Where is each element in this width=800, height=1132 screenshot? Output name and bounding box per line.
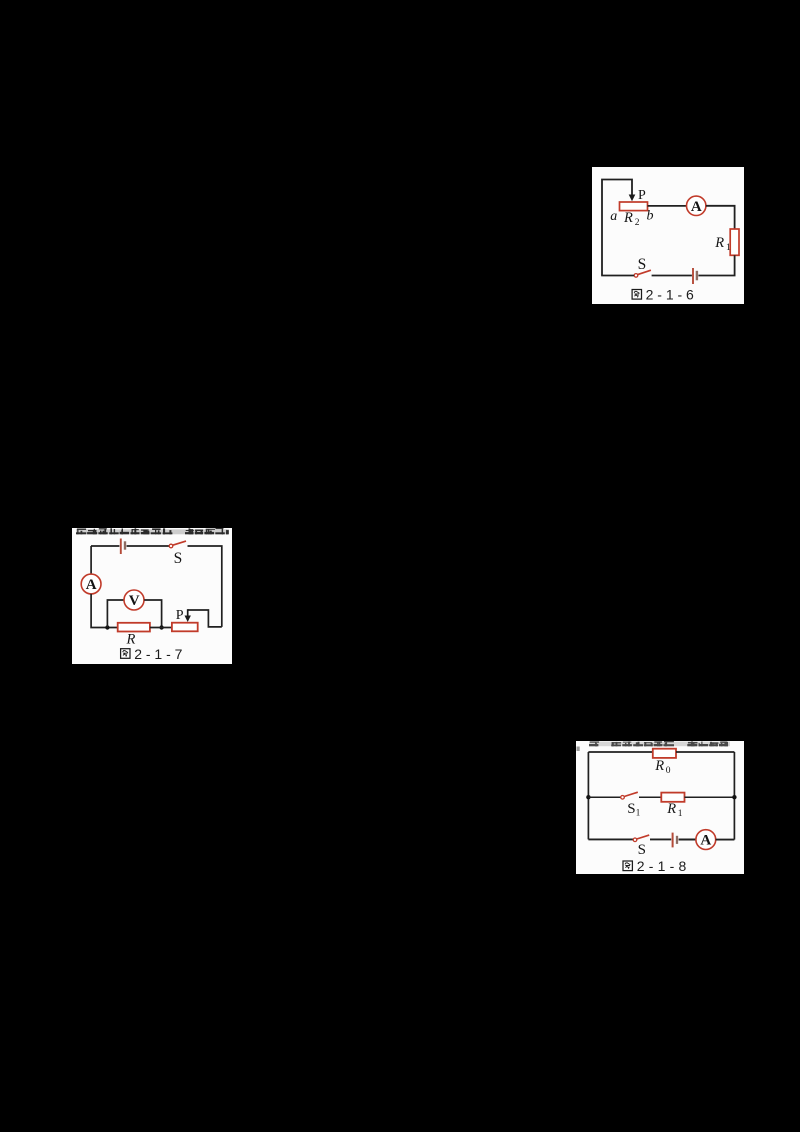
wire ammeter to bottom (91, 594, 117, 628)
figure box 2-1-6 (592, 167, 744, 304)
svg-text:S: S (638, 842, 646, 858)
wire switch to right wall (188, 546, 222, 627)
figure box 2-1-7 (72, 528, 232, 664)
ammeter A (696, 830, 716, 850)
resistor R (118, 623, 150, 632)
wire battery to switch (127, 545, 169, 547)
svg-text:A: A (86, 577, 97, 593)
label S (638, 842, 646, 858)
slider arrow P (629, 195, 636, 202)
label R (126, 632, 136, 648)
svg-text:1: 1 (726, 243, 731, 253)
svg-text:P: P (638, 188, 646, 203)
wire top left (91, 545, 119, 547)
svg-text:2 - 1 - 7: 2 - 1 - 7 (134, 646, 182, 662)
svg-text:2 - 1 - 6: 2 - 1 - 6 (646, 287, 694, 303)
switch S (634, 270, 651, 277)
wire left/top hook (602, 180, 632, 276)
wire ammeter to right corner (706, 206, 735, 229)
figure box 2-1-8 (576, 741, 744, 874)
wire top right (676, 751, 734, 753)
svg-text:S: S (638, 256, 647, 273)
label R2 (623, 210, 640, 228)
battery (673, 833, 677, 848)
wire node to rheostat (150, 627, 172, 629)
switch S1 (621, 792, 638, 799)
wire left wall (587, 752, 589, 839)
junction node left (586, 795, 590, 799)
cropped text line (76, 528, 229, 534)
svg-text:1: 1 (636, 808, 641, 818)
svg-text:2: 2 (635, 218, 640, 228)
svg-text:V: V (129, 593, 140, 609)
svg-text:b: b (647, 209, 654, 224)
junction node right (732, 795, 736, 799)
wire left side (90, 546, 92, 574)
resistor R1 (730, 229, 739, 255)
wire rheostat to ammeter (648, 205, 687, 207)
wire switch to left (601, 275, 634, 277)
caption 图 2-1-7 (121, 646, 183, 662)
label R1 (666, 801, 683, 819)
label S (174, 550, 183, 567)
cropped text line (589, 741, 730, 746)
svg-text:2 - 1 - 8: 2 - 1 - 8 (637, 858, 687, 874)
switch S (633, 835, 649, 842)
wire battery to ammeter (679, 839, 696, 841)
wire middle left (588, 796, 620, 798)
svg-text:S: S (627, 801, 635, 817)
label R0 (654, 758, 671, 776)
svg-text:S: S (174, 550, 183, 567)
voltmeter branch right (144, 600, 161, 627)
svg-text:P: P (176, 608, 184, 623)
label S (638, 256, 647, 273)
label S1 (627, 801, 640, 818)
svg-text:1: 1 (678, 809, 683, 819)
wire bottom left (588, 838, 633, 840)
svg-text:a: a (610, 209, 617, 224)
label P (176, 608, 184, 623)
rheostat R2 (620, 202, 648, 211)
switch S (169, 541, 186, 548)
ammeter A (81, 574, 101, 594)
caption 图 2-1-6 (632, 287, 694, 303)
resistor R0 (653, 749, 676, 758)
voltmeter V (124, 590, 144, 610)
ammeter A1 (687, 196, 706, 215)
wire switch to R1 (639, 796, 661, 798)
wire battery to switch (652, 275, 692, 277)
wire R1 to bottom right (698, 255, 734, 275)
svg-text:R: R (666, 801, 676, 817)
svg-text:R: R (623, 210, 633, 226)
page mark (577, 747, 580, 752)
wire hook to slider (188, 610, 222, 627)
wire switch to battery (650, 838, 671, 840)
svg-text:R: R (654, 758, 664, 774)
voltmeter branch left (107, 600, 124, 627)
wire top left (588, 751, 653, 753)
slider arrow (185, 609, 191, 622)
caption 图 2-1-8 (623, 858, 686, 874)
rheostat (172, 623, 198, 632)
label P (638, 188, 646, 203)
label R1 (714, 235, 731, 253)
svg-text:A: A (691, 199, 702, 215)
label a (610, 209, 617, 224)
svg-text:R: R (714, 235, 724, 251)
wire R1 to right wall (685, 796, 735, 798)
resistor R1 (661, 793, 684, 802)
junction node right (159, 625, 163, 629)
svg-text:0: 0 (666, 766, 671, 776)
label b (647, 209, 654, 224)
wire ammeter to right wall (716, 839, 735, 841)
battery (121, 539, 125, 555)
junction node left (105, 625, 109, 629)
wire right wall (733, 752, 735, 840)
battery (693, 268, 697, 284)
svg-text:A: A (700, 833, 711, 849)
